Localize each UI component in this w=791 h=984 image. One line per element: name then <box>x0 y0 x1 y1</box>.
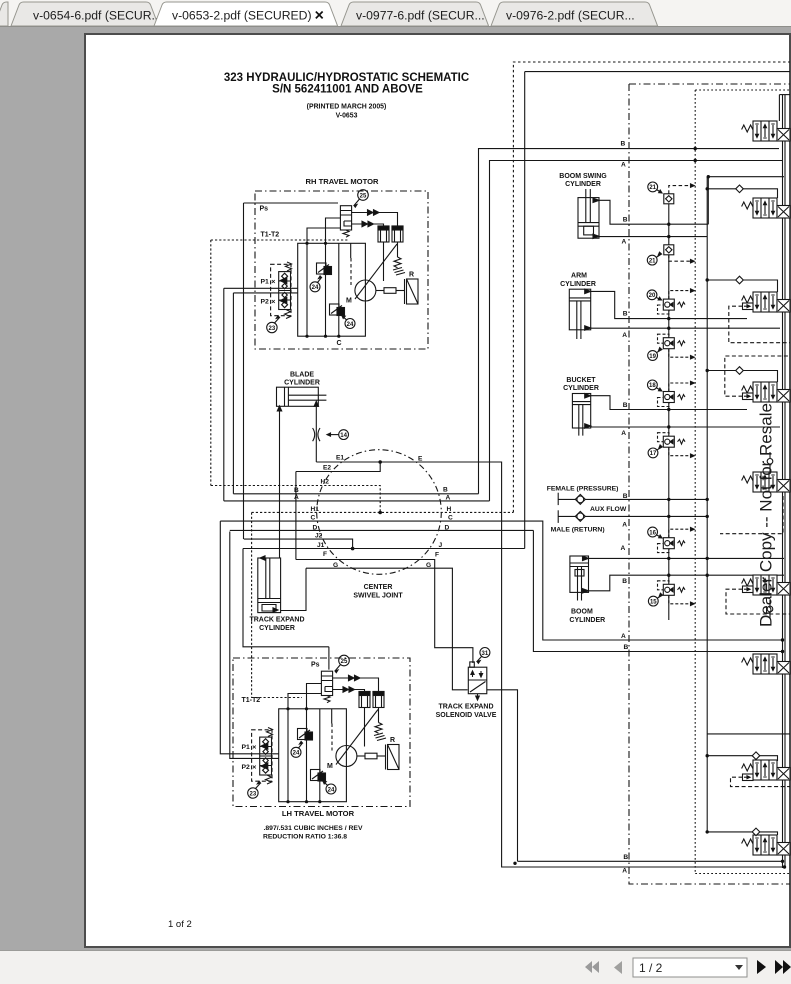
svg-text:M: M <box>346 298 352 305</box>
callout 24 lower <box>345 319 355 329</box>
arm B wire <box>591 291 747 318</box>
svg-text:A: A <box>621 162 626 169</box>
swivel line E1 <box>316 461 380 463</box>
D drop to LH travel B line <box>533 530 782 651</box>
svg-text:A: A <box>446 494 451 501</box>
anticavitation valve 19 <box>648 334 695 360</box>
junction dots housing <box>305 242 340 338</box>
LH port label Ps <box>311 662 320 669</box>
svg-text:Ps: Ps <box>311 662 320 669</box>
svg-text:16: 16 <box>649 530 656 536</box>
svg-text:P1: P1 <box>261 279 270 286</box>
browser tab bar <box>0 0 791 26</box>
bottom return line labels <box>622 854 628 875</box>
shift piston right <box>392 226 403 242</box>
svg-text:E: E <box>418 455 423 462</box>
boom cylinder <box>569 556 605 624</box>
svg-text:SWIVEL JOINT: SWIVEL JOINT <box>353 593 403 600</box>
swivel line H2 pilot dotted <box>211 486 380 513</box>
title text <box>224 72 469 120</box>
svg-text:TRACK EXPAND: TRACK EXPAND <box>249 617 304 624</box>
relief valve 24 upper <box>317 263 327 274</box>
bottom toolbar <box>0 950 791 984</box>
callout 23 <box>267 322 277 332</box>
shuttle wire upper with check <box>352 213 398 227</box>
leftmost partial tab <box>0 2 8 26</box>
LH motor J1 return vertical <box>243 549 329 670</box>
svg-text:ARM: ARM <box>571 273 587 280</box>
travel motor internals RH <box>261 190 419 338</box>
svg-text:MALE (RETURN): MALE (RETURN) <box>551 527 605 534</box>
spool valve S6 boom <box>742 575 790 595</box>
svg-text:E1: E1 <box>336 454 344 461</box>
svg-text:T1-T2: T1-T2 <box>261 232 280 239</box>
spool valve S3 arm <box>742 292 790 312</box>
wire B travel bus top <box>479 149 780 494</box>
S5 pilot dashed <box>720 496 783 534</box>
cylinder port labels right column <box>621 217 628 586</box>
svg-text:R: R <box>409 272 414 279</box>
LH travel motor internals <box>242 655 400 803</box>
track valve output wire <box>487 690 518 862</box>
svg-text:B: B <box>623 402 628 409</box>
svg-text:19: 19 <box>649 354 656 360</box>
blade left wire to track cylinder <box>279 409 281 558</box>
main feed vertical x=707 <box>706 177 708 832</box>
toolbar controls <box>585 958 791 977</box>
RH motor Ps supply wire <box>244 203 339 539</box>
check valve 21 upper <box>648 182 695 204</box>
svg-text:A: A <box>621 545 626 552</box>
swivel line H1 pilot dotted <box>252 511 514 513</box>
svg-text:23: 23 <box>269 326 276 332</box>
svg-text:FEMALE (PRESSURE): FEMALE (PRESSURE) <box>547 485 619 492</box>
RH motor pilot dotted box T1-T2 <box>211 240 348 486</box>
RH port labels Ps and C <box>260 206 342 348</box>
svg-text:H2: H2 <box>321 479 330 486</box>
svg-text:V-0653: V-0653 <box>336 113 358 120</box>
valve bank dash-dot boundary box <box>629 84 790 884</box>
svg-text:A: A <box>622 522 627 529</box>
track cylinder to LH motor wire <box>281 568 306 610</box>
svg-text:J: J <box>439 542 443 549</box>
valve to housing drops <box>307 218 340 243</box>
svg-text:15: 15 <box>650 599 657 605</box>
svg-text:D: D <box>313 525 318 532</box>
blade cylinder <box>277 372 327 412</box>
boom cylinder A drop <box>589 557 785 559</box>
aux male coupler <box>551 506 627 534</box>
bottom B line <box>518 860 783 862</box>
callout 24 upper <box>310 282 320 292</box>
reducer R <box>404 279 406 304</box>
svg-text:17: 17 <box>650 451 657 457</box>
svg-text:Ps: Ps <box>260 206 269 213</box>
svg-text:G: G <box>333 562 338 569</box>
svg-text:B: B <box>623 493 628 500</box>
svg-text:S/N 562411001 AND ABOVE: S/N 562411001 AND ABOVE <box>272 84 423 96</box>
svg-text:✕: ✕ <box>271 278 276 285</box>
hydraulic motor M <box>355 280 376 301</box>
LH motor pilot dotted <box>252 680 302 698</box>
svg-text:A: A <box>294 494 299 501</box>
wire from feed to bus top <box>707 176 784 178</box>
arm A wire <box>591 327 780 329</box>
S6 ball check <box>769 600 771 618</box>
svg-text:21: 21 <box>649 258 656 264</box>
spool valve S9 spare <box>742 835 790 855</box>
LH motor P1 P2 supply wires <box>220 521 278 758</box>
block check diamonds <box>282 273 288 308</box>
svg-text:C: C <box>311 514 316 521</box>
svg-text:31: 31 <box>482 651 489 657</box>
swivel line B <box>233 493 478 495</box>
spool valve S4 bucket <box>742 382 790 402</box>
svg-text:REDUCTION RATIO 1:36.8: REDUCTION RATIO 1:36.8 <box>263 834 347 841</box>
relief valve 24 lower <box>330 304 340 315</box>
svg-text:H: H <box>447 506 452 513</box>
svg-text:E2: E2 <box>323 465 331 472</box>
valve bank solid return line box <box>525 72 790 549</box>
svg-text:H1: H1 <box>311 506 320 513</box>
LH travel motor boundary <box>233 658 410 807</box>
bus stub top <box>779 94 790 96</box>
center swivel joint circle <box>317 450 442 575</box>
svg-text:1 of 2: 1 of 2 <box>168 919 192 930</box>
svg-text:C: C <box>337 340 342 347</box>
svg-text:B: B <box>623 217 628 224</box>
housing internal lines <box>307 243 351 336</box>
svg-text:D: D <box>445 525 450 532</box>
motor swash diagonal <box>355 244 397 299</box>
inner dotted boundary box <box>695 90 790 874</box>
shift piston left <box>378 226 389 242</box>
S8 feed check <box>707 733 790 735</box>
S3 solenoid and pilot <box>743 303 754 310</box>
svg-text:CYLINDER: CYLINDER <box>259 625 295 632</box>
page number footer <box>168 919 192 930</box>
boom swing A wire <box>599 236 707 238</box>
block check arrows <box>280 277 287 303</box>
RH travel motor boundary <box>255 191 428 349</box>
flushing valve 25 <box>340 206 351 230</box>
svg-text:B: B <box>623 854 628 861</box>
svg-text:F: F <box>435 551 439 558</box>
swivel line E and drop to LH-travel A line <box>380 462 784 867</box>
S3 feed line with check <box>707 280 777 292</box>
next-page button <box>757 960 766 974</box>
page number box <box>633 958 747 977</box>
svg-text:A: A <box>622 332 627 339</box>
spring and ground <box>394 257 401 268</box>
S9 feed check <box>707 832 777 835</box>
spool valve S2 boom swing <box>742 198 790 218</box>
boom swing B wire <box>599 177 708 225</box>
svg-text:(PRINTED MARCH 2005): (PRINTED MARCH 2005) <box>307 104 387 111</box>
S4 solenoid and pilot <box>743 393 754 400</box>
svg-text:A: A <box>622 868 627 875</box>
svg-text:BLADE: BLADE <box>290 372 314 379</box>
svg-text:24: 24 <box>347 322 354 328</box>
svg-text:323 HYDRAULIC/HYDROSTATIC SCHE: 323 HYDRAULIC/HYDROSTATIC SCHEMATIC <box>224 72 469 84</box>
svg-text:BOOM SWING: BOOM SWING <box>559 173 607 180</box>
svg-text:Dealer Copy -- Not for Resale: Dealer Copy -- Not for Resale <box>757 403 776 627</box>
blade base wire E2 <box>295 472 297 560</box>
svg-text:B: B <box>622 578 627 585</box>
S5 ball check <box>769 452 771 472</box>
svg-text:CYLINDER: CYLINDER <box>563 385 599 392</box>
arm cylinder <box>560 273 596 339</box>
swivel line E2 <box>296 462 380 472</box>
svg-text:AUX FLOW: AUX FLOW <box>590 506 627 513</box>
travel bus labels top <box>621 140 627 168</box>
swivel line D boom A <box>230 529 534 531</box>
swivel port labels right <box>418 455 453 569</box>
check valve 21 lower <box>647 245 694 265</box>
anticavitation valve 16 <box>648 527 695 553</box>
svg-text:C: C <box>448 515 453 522</box>
svg-text:20: 20 <box>649 293 656 299</box>
swivel line J2 <box>244 539 353 549</box>
block springs <box>286 262 292 271</box>
prev-page button <box>614 961 622 974</box>
swivel line A <box>224 500 490 502</box>
first-page button <box>585 961 599 973</box>
Dealer Copy watermark <box>757 403 776 627</box>
spool valve S5 aux <box>742 472 790 492</box>
svg-text:CENTER: CENTER <box>364 584 393 591</box>
port labels P1 P2 <box>261 278 277 305</box>
S6 solenoid and pilot <box>743 586 754 593</box>
boom swing cylinder <box>559 173 607 239</box>
bucket B wire <box>591 396 747 410</box>
svg-text:21: 21 <box>649 185 656 191</box>
bucket cylinder <box>563 377 599 436</box>
svg-text:SOLENOID VALVE: SOLENOID VALVE <box>436 712 497 719</box>
shuttle wire lower with check <box>352 224 384 226</box>
svg-text:CYLINDER: CYLINDER <box>284 380 320 387</box>
bucket A wire <box>591 426 780 428</box>
svg-text:B: B <box>621 140 626 147</box>
counterbalance valve block <box>279 272 291 310</box>
valve 25 callout <box>358 190 369 201</box>
S4 feed line with check <box>707 371 777 383</box>
svg-text:A: A <box>622 239 627 246</box>
anticavitation valve 20 <box>647 289 694 314</box>
RH motor P1 P2 supply wires <box>224 288 298 501</box>
anticavitation valve 18 <box>648 380 695 407</box>
port label T1-T2 <box>261 232 280 239</box>
aux B coupler line <box>558 498 707 500</box>
spool valve S7 travel LH <box>742 654 790 674</box>
svg-text:F: F <box>323 551 327 558</box>
svg-text:P2: P2 <box>261 299 270 306</box>
anticavitation valve 17 <box>648 433 694 458</box>
last-page button <box>775 960 791 974</box>
piston stems <box>384 242 398 281</box>
svg-text:TRACK EXPAND: TRACK EXPAND <box>438 704 493 711</box>
svg-text:24: 24 <box>312 285 319 291</box>
tab v-0976-2 <box>491 2 658 26</box>
svg-text:J1: J1 <box>317 542 325 549</box>
anticavitation column wire <box>668 204 670 620</box>
svg-text:J2: J2 <box>315 532 323 539</box>
aux female coupler <box>547 485 619 505</box>
svg-text:CYLINDER: CYLINDER <box>565 181 601 188</box>
pilot drop to LH motor dotted <box>251 513 253 681</box>
svg-text:B: B <box>294 487 299 494</box>
junction dots swivel <box>296 460 382 559</box>
pressure bus vertical pair <box>779 95 785 868</box>
svg-text:A: A <box>621 430 626 437</box>
wire A travel bus top <box>490 161 784 501</box>
S2 feed line with check <box>707 189 777 198</box>
counterbalance valve block dashed <box>271 264 291 315</box>
track expand solenoid valve <box>436 648 497 720</box>
svg-text:18: 18 <box>649 383 656 389</box>
blade rod-end wire E1 <box>315 407 317 462</box>
swivel line C and drop to LH-travel B line <box>220 521 782 640</box>
restrictor 14 <box>313 428 320 441</box>
svg-text:B: B <box>624 644 629 651</box>
svg-text:CYLINDER: CYLINDER <box>569 617 605 624</box>
svg-text:.897/.531 CUBIC INCHES / REV: .897/.531 CUBIC INCHES / REV <box>264 825 363 832</box>
motor housing box <box>298 243 366 336</box>
swivel line G to track valve <box>306 568 468 690</box>
svg-text:A: A <box>621 633 626 640</box>
swivel line F and drop to track valve top <box>296 560 473 664</box>
motor shaft and coupling <box>376 290 384 292</box>
svg-text:RH TRAVEL MOTOR: RH TRAVEL MOTOR <box>306 177 380 186</box>
spool valve S8 aux2 <box>742 760 790 780</box>
track expand cylinder <box>249 556 304 632</box>
svg-text:B: B <box>623 311 628 318</box>
spool valve S1 travel RH <box>742 121 790 141</box>
tab v-0654-6 <box>11 2 159 26</box>
swivel port labels left <box>294 454 344 569</box>
svg-text:1 / 2: 1 / 2 <box>639 961 663 975</box>
anticavitation valve 15 <box>648 581 694 606</box>
aux A coupler line <box>558 515 707 517</box>
bottom travel line labels <box>621 633 629 651</box>
svg-text:✕: ✕ <box>271 299 276 306</box>
svg-text:25: 25 <box>360 193 367 199</box>
case drain dashed <box>350 258 352 285</box>
svg-text:B: B <box>443 486 448 493</box>
valve bank dotted boundary box <box>513 62 790 512</box>
svg-text:BOOM: BOOM <box>571 609 593 616</box>
boom cylinder B line <box>589 575 785 591</box>
svg-text:BUCKET: BUCKET <box>566 377 596 384</box>
svg-text:CYLINDER: CYLINDER <box>560 281 596 288</box>
swivel line J1 and drop to bottom B line <box>243 548 525 550</box>
S8 solenoid and pilot <box>743 774 754 781</box>
tab v-0977-6 <box>341 2 489 26</box>
svg-text:LH TRAVEL MOTOR: LH TRAVEL MOTOR <box>282 809 355 818</box>
svg-text:14: 14 <box>340 433 347 439</box>
active tab v-0653-2 <box>154 2 338 26</box>
svg-text:G: G <box>426 562 431 569</box>
